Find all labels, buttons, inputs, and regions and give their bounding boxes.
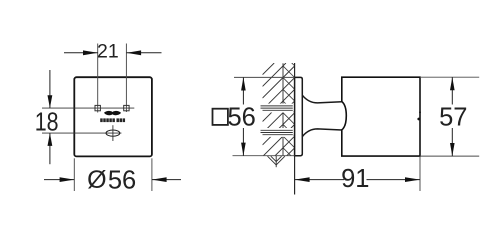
svg-text:Ø: Ø xyxy=(87,166,106,194)
svg-text:56: 56 xyxy=(228,103,256,131)
svg-text:57: 57 xyxy=(439,103,467,131)
svg-text:21: 21 xyxy=(97,41,119,63)
svg-text:18: 18 xyxy=(35,108,59,136)
svg-text:91: 91 xyxy=(341,165,369,193)
svg-text:56: 56 xyxy=(108,167,136,195)
